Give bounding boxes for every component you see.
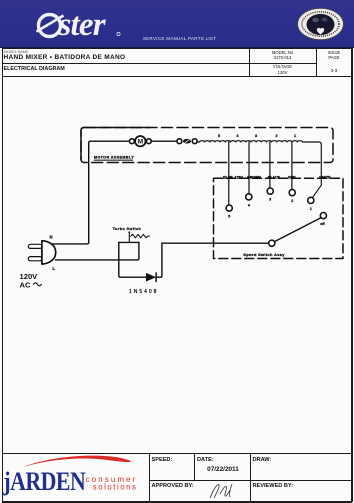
thermal fuse F1	[177, 139, 197, 144]
SERVICE MANUAL PARTS LIST	[143, 36, 216, 41]
svg-text:2: 2	[291, 199, 293, 203]
tap wire 2	[291, 142, 293, 189]
svg-text:BLUE 120V: BLUE 120V	[223, 176, 243, 180]
wire diode to speed switch	[156, 243, 162, 277]
svg-text:4: 4	[237, 134, 239, 138]
rotor arm pivot	[269, 240, 275, 246]
contact 1	[308, 197, 314, 211]
contact 3	[267, 188, 273, 202]
tap wire 4	[248, 142, 250, 194]
footer table lines	[2, 453, 352, 454]
label L	[53, 266, 56, 271]
svg-text:RED: RED	[288, 176, 296, 180]
rotor switch arm	[275, 218, 321, 242]
svg-text:BLACK: BLACK	[268, 176, 281, 180]
turbo switch S1	[128, 231, 130, 242]
svg-text:5: 5	[228, 215, 230, 219]
tap wire 5	[228, 142, 230, 205]
svg-text:MOTOR ASSEMBLY: MOTOR ASSEMBLY	[94, 156, 134, 160]
Speed Switch Assy label	[243, 252, 285, 257]
svg-text:L: L	[53, 266, 56, 271]
approval signature	[200, 480, 250, 502]
label N	[50, 235, 53, 240]
header table text	[4, 50, 28, 54]
svg-text:BROWN: BROWN	[247, 176, 261, 180]
contact 4	[246, 194, 252, 208]
svg-text:solutions: solutions	[93, 483, 138, 492]
svg-text:1N5408: 1N5408	[129, 289, 159, 295]
contact off	[320, 213, 326, 226]
seal badge top right	[294, 5, 348, 45]
Oster logo	[0, 0, 200, 47]
svg-text:1: 1	[294, 134, 296, 138]
AC tilde symbol	[34, 283, 42, 286]
label 120V AC	[20, 272, 39, 290]
1N5408 label	[129, 289, 159, 295]
svg-text:off: off	[320, 222, 325, 226]
MOTOR ASSEMBLY label	[94, 156, 134, 161]
speed switch assy dashed box	[214, 178, 344, 258]
speed switch wire color labels	[223, 176, 331, 180]
page outer border	[2, 47, 3, 502]
contact 2	[289, 190, 295, 204]
svg-text:N: N	[50, 235, 53, 240]
turbo switch top edge	[119, 241, 139, 243]
field coil winding with taps	[197, 141, 321, 198]
plug body	[42, 241, 56, 264]
turbo resistor R1	[131, 234, 150, 238]
plug prong N	[28, 244, 42, 248]
svg-text:Turbo Switch: Turbo Switch	[113, 227, 142, 231]
contact 5	[226, 205, 232, 219]
svg-text:WHITE: WHITE	[319, 176, 331, 180]
Turbo Switch label	[113, 227, 142, 231]
svg-text:2: 2	[276, 134, 278, 138]
wire motor to fuse	[151, 140, 177, 142]
svg-text:120V: 120V	[20, 272, 39, 281]
tap numbers 5 4 3 2 1	[218, 134, 296, 138]
common wire to pivot	[162, 242, 269, 244]
diode D1	[146, 273, 156, 282]
footer labels	[152, 457, 173, 463]
svg-text:3: 3	[269, 198, 271, 202]
tap wire 3	[269, 142, 271, 188]
wire L: plug to turbo switch node	[55, 242, 138, 260]
wire N: plug to motor	[50, 141, 130, 244]
motor M1 terminals	[130, 139, 152, 144]
motor M1	[135, 136, 145, 146]
header table lines	[2, 48, 352, 49]
svg-text:AC: AC	[20, 281, 31, 290]
svg-text:Speed Switch Assy: Speed Switch Assy	[243, 252, 285, 257]
plug prong L	[28, 257, 42, 261]
blue header bar	[0, 0, 354, 48]
svg-text:3: 3	[255, 134, 257, 138]
svg-text:4: 4	[248, 203, 250, 207]
Jarden logo	[0, 450, 150, 503]
svg-text:5: 5	[218, 134, 220, 138]
wire to diode (left branch)	[119, 242, 146, 277]
svg-text:M: M	[137, 139, 143, 146]
svg-text:jARDEN: jARDEN	[2, 468, 86, 496]
motor assembly dashed box	[81, 128, 333, 163]
svg-text:1: 1	[310, 207, 312, 211]
